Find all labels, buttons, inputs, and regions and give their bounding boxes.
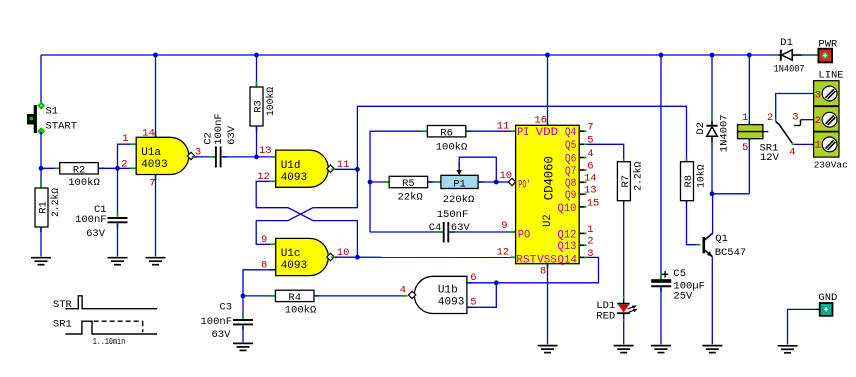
svg-text:100nF: 100nF [200,316,232,328]
wire U1d pin11 feedback to R8 [357,106,686,169]
svg-text:4093: 4093 [281,172,307,184]
potentiometer P1 220k [436,162,484,206]
svg-text:12: 12 [497,246,510,258]
pin stub Q7 (6) [579,169,585,171]
terminal GND [818,292,837,316]
wire contact3 to LINE 2 [801,119,803,121]
svg-text:9: 9 [261,234,267,246]
ic U2 CD4060 [516,125,580,266]
wire SR1 pin5 down [748,139,750,194]
wire R3 top to rail [256,55,258,87]
wire U1d pin13 [257,156,276,158]
resistor R5 22k [384,176,432,203]
diode D1 1N4007 [774,37,805,75]
svg-text:U2: U2 [542,214,554,227]
wire C5 top [660,55,662,279]
svg-text:3: 3 [792,111,798,123]
svg-text:U1a: U1a [141,147,161,159]
svg-text:1..10min: 1..10min [93,337,126,347]
wire R1 top [40,168,42,188]
pin mark PI [511,130,516,132]
ground C5 [651,345,671,347]
node junction U1b pins [494,280,499,285]
pin stub Q10 (15) [579,206,585,208]
pin marks C4 [437,231,443,233]
svg-text:1: 1 [587,224,593,236]
svg-text:11: 11 [497,121,510,133]
svg-text:100nF: 100nF [213,113,225,145]
terminal PWR [818,39,838,63]
pin mark RST [511,256,516,258]
pin stub Q8 (14) [579,181,585,183]
wire U1b pins 6 and 5 tied [467,283,496,308]
svg-text:4093: 4093 [141,159,167,171]
pin stub Q12 (1) [579,232,585,234]
svg-text:4093: 4093 [281,260,307,272]
wire common 4 to LINE 1 [794,143,813,145]
node rail junction U1a pin14 [153,53,158,58]
svg-text:VDD: VDD [536,127,559,139]
svg-text:8: 8 [540,266,546,278]
svg-text:R3: R3 [253,100,265,113]
node rail junction SR1 coil [747,53,752,58]
ground LED [614,345,634,347]
resistor R2 100k [55,163,104,189]
wire to PO' [496,181,508,183]
svg-text:100nF: 100nF [75,214,107,226]
pin stub Q9 (13) [579,193,585,195]
svg-text:START: START [46,120,78,132]
node rail junction D2 [710,53,715,58]
wire SR1 pin1 to rail [748,55,750,125]
svg-text:12V: 12V [760,152,780,164]
node junction P1 wiper PO' [494,180,499,185]
svg-text:SR1: SR1 [53,319,72,331]
wire R5 left [370,181,390,183]
nand gate U1c 4093 [270,238,337,275]
transistor Q1 BC547 [697,233,747,259]
wire D2 top [711,55,713,118]
svg-text:5: 5 [470,296,476,308]
ground GND terminal [778,345,798,347]
wire C3 bottom [242,325,244,342]
svg-text:63V: 63V [226,125,238,145]
wire SR1 contact 2 from LINE 3 [776,94,814,119]
svg-text:Q12: Q12 [558,229,577,241]
svg-text:PO': PO' [518,179,531,191]
svg-text:PO: PO [518,230,531,242]
svg-text:R7: R7 [620,175,632,188]
wire U1d pin12 [256,181,276,207]
wire R4 right to U1b output [314,295,407,297]
svg-text:220kΩ: 220kΩ [443,194,475,206]
node junction D2/SR1/Q1 [710,191,715,196]
relay coil SR1 12V [738,112,780,164]
connector LINE 230Vac [814,70,849,171]
svg-text:100kΩ: 100kΩ [265,87,277,116]
pin marks C2 [210,156,215,158]
svg-text:100kΩ: 100kΩ [68,177,100,189]
svg-text:1: 1 [122,133,128,145]
svg-text:2.2kΩ: 2.2kΩ [632,162,644,191]
wire R3 bottom [256,126,258,157]
capacitor C4 150nF [429,209,471,242]
svg-text:3: 3 [815,89,821,101]
wire latch cross coupling upper [256,208,357,258]
svg-text:22kΩ: 22kΩ [397,192,422,204]
pin stub Q6 (4) [579,157,585,159]
svg-text:C3: C3 [219,302,232,314]
relay contact 3 [794,120,801,126]
svg-text:RST: RST [516,254,536,266]
ground R1 [31,257,51,259]
svg-text:4: 4 [789,146,795,158]
resistor R6 100k [422,126,471,154]
wire U1a pin7 to ground [155,175,157,257]
wire VDD to rail [547,55,549,125]
svg-text:16: 16 [534,114,547,126]
svg-text:14: 14 [142,128,155,140]
svg-text:BC547: BC547 [715,247,747,259]
svg-text:2.2kΩ: 2.2kΩ [50,188,62,217]
svg-text:R4: R4 [288,292,301,304]
node junction R4/C3/U1c pin8 [241,294,246,299]
capacitor C3 100nF [200,302,253,342]
svg-text:7: 7 [587,122,593,134]
svg-text:LINE: LINE [818,70,843,82]
wire R8 to Q1 base [687,201,700,245]
wire U1a output to C2 [194,156,215,158]
svg-text:1N4007: 1N4007 [774,63,805,75]
capacitor C5 100uF electrolytic [651,268,705,303]
pin mark PO [511,231,516,233]
svg-text:2: 2 [815,115,821,127]
resistor R7 2.2k [617,159,644,204]
svg-text:2: 2 [767,112,773,124]
svg-text:S1: S1 [46,105,59,117]
svg-text:GND: GND [818,292,837,304]
nand gate U1d 4093 [270,150,337,187]
node rail junction C5 [659,53,664,58]
svg-text:150nF: 150nF [437,209,469,221]
pin stub Q13 (2) [579,244,585,246]
svg-text:7: 7 [149,177,155,189]
node junction R2/C1/U1a pin1 [115,166,120,171]
wire C1 top [117,168,119,216]
pin PO' bubble [508,178,515,185]
capacitor C2 100nF [202,113,238,167]
svg-text:R1: R1 [38,201,50,214]
wire U1a pin1 [118,144,137,168]
node junction S1/R1/R2 [39,166,44,171]
svg-text:Q4: Q4 [565,127,577,139]
pin mark VSS [547,264,549,268]
ground VSS [538,345,558,347]
ground Q1 [702,345,722,347]
switch S1 START [27,102,77,136]
wire C3 top [242,296,244,319]
svg-text:Q8: Q8 [565,178,577,190]
wire LED to ground [623,321,625,344]
svg-text:230Vac: 230Vac [814,159,849,170]
svg-text:PI: PI [517,127,529,139]
svg-text:13: 13 [259,145,272,157]
svg-text:4: 4 [400,284,406,296]
pin stub Q5 (5) [579,143,585,145]
svg-text:U1d: U1d [281,160,301,172]
wire R1 bottom [40,227,42,257]
svg-text:5: 5 [742,142,748,154]
svg-text:R8: R8 [683,175,695,188]
wire C1 bottom [117,223,119,256]
resistor R8 10k [681,159,708,204]
pin mark VDD [547,121,549,125]
svg-text:10: 10 [500,170,513,182]
resistor R1 2.2k [35,184,62,233]
nand gate U1b 4093 (mirrored) [402,276,473,313]
wire R4 left [243,295,276,297]
wire U1c output to RST [335,256,515,258]
svg-text:9: 9 [501,220,507,232]
pin mark GND [816,308,820,310]
svg-text:6: 6 [470,272,476,284]
led LD1 RED [596,296,638,323]
wire D1 to PWR [805,54,818,56]
svg-text:15: 15 [587,197,600,209]
wire rail to D1 [749,54,775,56]
node rail junction R3 [254,53,259,58]
svg-text:25V: 25V [673,291,693,303]
diode D2 1N4007 [695,114,731,152]
svg-text:100kΩ: 100kΩ [285,305,317,317]
wire P1 wiper loop [459,157,496,182]
wire latch cross coupling lower [256,169,357,220]
svg-text:P1: P1 [453,178,466,190]
svg-text:D2: D2 [695,122,707,135]
wire U1a pin14 to rail [155,55,157,137]
node junction C2/R3/U1d pin13 [254,155,259,160]
svg-text:2: 2 [587,236,593,248]
svg-text:PWR: PWR [818,39,838,51]
waveform SR1 [53,319,157,348]
svg-text:Q6: Q6 [565,153,577,165]
wire R2 left [41,167,60,169]
svg-text:63V: 63V [211,329,231,341]
wire C2 right to node [222,156,257,158]
svg-text:Q7: Q7 [565,166,577,178]
svg-text:4093: 4093 [438,297,464,309]
wire R2 right to U1a pin2 [98,167,136,169]
node junction U1c output pin10 [355,255,360,260]
pin mark PWR [814,54,818,56]
svg-text:Q14: Q14 [558,254,578,266]
wire U1d output [335,168,357,170]
ground U1a pin7 [146,257,166,259]
svg-text:100kΩ: 100kΩ [436,141,468,153]
waveform STR [53,296,157,311]
svg-text:63V: 63V [86,228,106,240]
wire oscillator rail [369,131,371,232]
svg-text:RED: RED [596,311,615,323]
capacitor C1 100nF [75,204,127,240]
wire U1b to Q14 loop [496,257,598,282]
wire U1c pin9 link [256,221,276,245]
svg-text:C5: C5 [673,268,686,280]
pin stub Q4 (7) [579,130,585,132]
wire GND to ground [788,309,820,344]
wire relay return [712,193,749,195]
svg-text:R5: R5 [402,178,415,190]
svg-text:6: 6 [587,160,593,172]
wire R5 to P1 [427,181,441,183]
wire R7 bottom to LED [623,201,625,297]
wire C4 right to PO [449,231,515,233]
wire R6 left [370,130,428,132]
svg-text:Q13: Q13 [558,241,577,253]
svg-text:R2: R2 [73,165,86,177]
wire C5 bottom [660,287,662,344]
svg-text:10kΩ: 10kΩ [696,164,708,188]
svg-text:Q1: Q1 [715,233,728,245]
svg-text:Q10: Q10 [558,203,577,215]
wire Q1 collector [712,194,714,233]
svg-text:U1c: U1c [281,248,301,260]
wire VSS to ground [547,264,549,345]
svg-text:2: 2 [121,158,127,170]
wire left rail down to S1 [40,55,42,103]
wire Q5 to R7 [587,144,624,162]
wire P1 right [478,181,496,183]
svg-text:12: 12 [257,171,270,183]
svg-text:1: 1 [742,112,748,124]
node junction U1d output pin11 [355,167,360,172]
resistor R3 100k [250,82,277,132]
svg-text:1: 1 [815,140,821,152]
svg-text:D1: D1 [780,37,793,49]
svg-text:4: 4 [587,148,593,160]
wire C4 left [370,231,443,233]
svg-text:U1b: U1b [438,285,458,297]
svg-text:R6: R6 [440,127,453,139]
nand gate U1a 4093 [131,132,198,180]
ground C3 [233,342,253,344]
svg-text:Q9: Q9 [565,190,577,202]
wire S1 to R2 row [40,131,42,168]
wire R6 right to PI [466,130,516,132]
node rail junction VDD [545,53,550,58]
resistor R4 100k [271,290,319,316]
ground C1 [108,257,128,259]
relay switch blade [776,119,795,144]
svg-text:3: 3 [587,248,593,260]
wire U1c pin8 [243,270,276,296]
svg-text:13: 13 [584,185,597,197]
svg-text:Q5: Q5 [565,140,577,152]
pin stub Q14 (3) [579,256,585,258]
node junction R5 rail [368,180,373,185]
svg-text:CD4060: CD4060 [542,156,557,200]
wire Q1 emitter to ground [711,257,713,344]
wire +12V top rail [41,54,750,56]
wire D2 bottom [711,145,713,194]
svg-text:1N4007: 1N4007 [718,114,730,152]
svg-text:14: 14 [584,173,597,185]
